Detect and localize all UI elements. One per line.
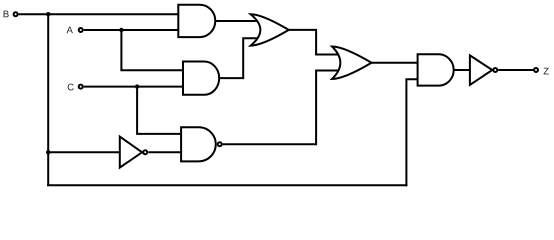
wire OR1 output to OR2 input xyxy=(289,30,340,55)
wire B vertical trunk xyxy=(47,13,49,186)
wire A branch to AND2 input xyxy=(121,30,183,70)
terminal A xyxy=(79,28,83,32)
AND gate U7 xyxy=(418,54,454,85)
wire B to NOT1 input xyxy=(48,151,120,153)
wire C branch to NAND input xyxy=(137,87,181,134)
wire bottom feedback horizontal xyxy=(47,184,407,186)
NAND gate U6 bubble xyxy=(218,142,222,146)
wire A to AND1 input xyxy=(84,29,179,31)
terminal B xyxy=(14,12,18,16)
junction on B wire top xyxy=(46,12,50,16)
OR gate U4 xyxy=(332,47,372,80)
wire feedback up to AND3 xyxy=(406,79,417,186)
wire NOT1 output to NAND input xyxy=(148,151,181,153)
wire C to AND2 input xyxy=(84,86,183,88)
NOT gate U5 triangle xyxy=(120,137,142,168)
wire AND2 output to OR1 input xyxy=(219,38,262,78)
wire NAND output to OR2 input xyxy=(223,71,342,145)
wire NOT2 output to Z xyxy=(498,69,533,71)
AND gate U1 (inputs B,A) xyxy=(178,5,215,37)
terminal C xyxy=(79,85,83,89)
NOT gate U8 bubble xyxy=(493,68,497,72)
wire AND3 output to NOT2 input xyxy=(454,69,470,71)
label Z xyxy=(544,68,549,75)
label A xyxy=(67,27,73,34)
terminal Z xyxy=(534,68,538,72)
OR gate U3 xyxy=(251,14,289,45)
junction on C wire xyxy=(135,84,139,88)
NAND gate U6 body xyxy=(181,127,216,161)
NOT gate U5 bubble xyxy=(143,150,147,154)
wire AND1 output to OR1 input xyxy=(215,20,260,22)
AND gate U2 (inputs A,C) xyxy=(183,62,219,95)
NOT gate U8 triangle xyxy=(470,55,492,85)
junction on A wire xyxy=(119,28,123,32)
label C xyxy=(68,84,74,91)
label B xyxy=(4,11,9,18)
wire B to AND1 input xyxy=(19,13,179,15)
junction on B trunk at NOT1 xyxy=(46,150,50,154)
wire OR2 output to AND3 input xyxy=(372,62,418,64)
